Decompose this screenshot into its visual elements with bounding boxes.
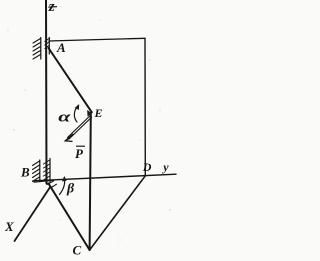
- svg-text:D: D: [142, 160, 152, 174]
- svg-text:A: A: [56, 40, 66, 55]
- svg-text:X: X: [4, 219, 14, 234]
- svg-text:B: B: [20, 165, 30, 180]
- svg-text:P: P: [75, 146, 84, 161]
- svg-text:E: E: [94, 106, 103, 120]
- svg-text:α: α: [58, 109, 71, 126]
- svg-text:β: β: [66, 182, 75, 197]
- svg-text:C: C: [73, 243, 82, 258]
- svg-text:y: y: [161, 160, 169, 174]
